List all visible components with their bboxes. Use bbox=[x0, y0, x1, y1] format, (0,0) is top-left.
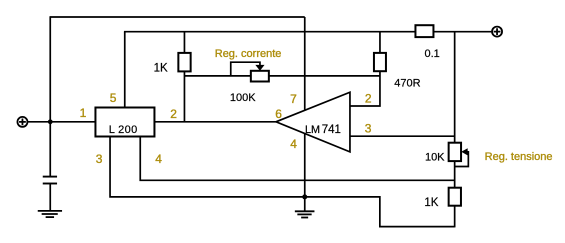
junction dot input bbox=[48, 119, 53, 124]
resistor R4 1K bbox=[449, 188, 461, 206]
ground (left) bbox=[38, 211, 62, 217]
op-amp U2 LM 741 bbox=[276, 92, 350, 152]
input terminal + bbox=[17, 117, 27, 127]
svg-text:741: 741 bbox=[322, 124, 341, 136]
wire op-amp pin 4 drop bbox=[304, 134, 306, 197]
svg-text:1K: 1K bbox=[424, 197, 438, 209]
wire rail pin5 to 0.1 bbox=[124, 31, 416, 33]
wire L200 pin 5 vertical bbox=[124, 32, 126, 108]
wire op-amp pin 7 drop bbox=[304, 17, 306, 110]
wire top rail bbox=[50, 16, 305, 18]
svg-text:100K: 100K bbox=[230, 92, 256, 104]
wire 1K to 100K pot left bbox=[184, 75, 250, 77]
resistor R1 1K bbox=[178, 53, 190, 72]
wire 100K wiper link bbox=[231, 62, 260, 76]
wire L200 pin 4 down and rail to divider bbox=[140, 136, 454, 180]
svg-text:7: 7 bbox=[290, 92, 297, 106]
svg-text:470R: 470R bbox=[394, 77, 420, 89]
svg-text:Reg. corrente: Reg. corrente bbox=[215, 48, 282, 60]
potentiometer P1 100K bbox=[251, 65, 269, 82]
svg-text:2: 2 bbox=[365, 91, 372, 105]
wire 100K pot right to 470R bottom node bbox=[269, 75, 380, 77]
svg-text:6: 6 bbox=[275, 107, 282, 121]
wire middle ground stub bbox=[304, 197, 306, 211]
svg-text:L 200: L 200 bbox=[109, 124, 138, 136]
wire 10K wiper hook bbox=[455, 152, 469, 167]
wire input vertical upper bbox=[49, 16, 51, 176]
resistor R2 470R bbox=[374, 53, 386, 71]
wire output rail down to 10K bbox=[454, 32, 456, 143]
svg-text:1: 1 bbox=[80, 106, 87, 120]
wire 0.1 to output terminal bbox=[433, 31, 491, 33]
regulator U1 L 200 bbox=[95, 108, 154, 137]
svg-text:4: 4 bbox=[155, 152, 162, 166]
wire input vertical lower (below capacitor) bbox=[49, 184, 51, 211]
svg-text:LM: LM bbox=[305, 124, 320, 136]
resistor R3 0.1 bbox=[415, 25, 433, 37]
wire 1K bottom vertical to pin2 row bbox=[183, 71, 185, 121]
wire terminal to L200 pin 1 bbox=[28, 121, 96, 123]
svg-text:5: 5 bbox=[110, 91, 117, 105]
output terminal + bbox=[492, 27, 502, 37]
svg-text:3: 3 bbox=[96, 152, 103, 166]
ground (middle) bbox=[295, 211, 315, 217]
svg-text:Reg. tensione: Reg. tensione bbox=[485, 151, 553, 163]
svg-text:1K: 1K bbox=[154, 62, 168, 74]
wire 10K bottom to 1K top bbox=[454, 161, 456, 188]
potentiometer P2 10K bbox=[449, 143, 468, 161]
svg-text:2: 2 bbox=[170, 107, 177, 121]
svg-text:4: 4 bbox=[290, 137, 297, 151]
svg-text:10K: 10K bbox=[425, 152, 445, 164]
junction dot op-amp pin4 / ground bbox=[302, 194, 307, 199]
capacitor C1 bbox=[43, 177, 57, 184]
wire 1K bottom vertical bbox=[454, 206, 456, 228]
svg-text:3: 3 bbox=[365, 121, 372, 135]
wire L200 pin 2 to op-amp pin 6 bbox=[154, 121, 276, 123]
wire op-amp pin 3 stub bbox=[350, 135, 455, 137]
svg-text:0.1: 0.1 bbox=[425, 48, 440, 60]
wire L200 pin 3 down and ground rail bbox=[110, 136, 455, 226]
wire 1K top vertical bbox=[183, 32, 185, 53]
wire 470R top vertical bbox=[379, 32, 381, 53]
wire 470R bottom to op-amp pin 2 bbox=[350, 71, 380, 106]
